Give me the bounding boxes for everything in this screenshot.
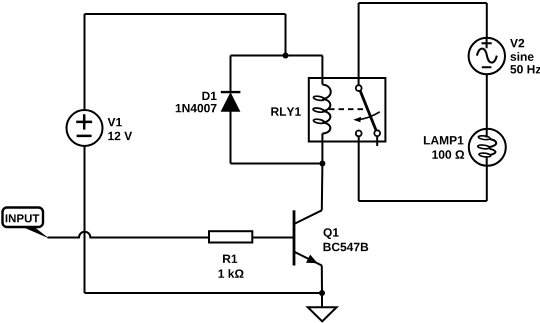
voltage source V1 (67, 110, 103, 146)
node collector/diode junction dot (319, 161, 325, 167)
wire diode bottom to collector node (231, 163, 323, 165)
label RLY1 (271, 107, 301, 115)
wire lamp bottom lead (486, 166, 488, 201)
ground (308, 293, 337, 321)
wire V2 top lead (486, 3, 488, 38)
wire input to resistor with hop over V1 lead (48, 232, 210, 238)
lamp LAMP1 (469, 129, 506, 166)
wire V2 to lamp (486, 74, 488, 129)
wire horizontal D1/relay top (231, 55, 323, 57)
wire V2 bottom rail (359, 200, 487, 202)
voltage source V2 (469, 38, 505, 74)
wire V2 top rail (359, 2, 487, 4)
wire vertical drop from top rail to node (285, 14, 287, 56)
node junction dot top (283, 53, 289, 59)
coil lead above (321, 56, 323, 85)
transistor Q1 (294, 210, 322, 265)
input flag INPUT (3, 208, 50, 239)
label V1 12 V (108, 118, 133, 140)
wire bottom rail (85, 292, 323, 294)
wire top rail from V1 to junction (85, 13, 286, 15)
relay RLY1 (309, 56, 386, 147)
dashed actuation line (329, 108, 363, 110)
wire V1 top lead (84, 14, 86, 110)
diode D1 (221, 56, 241, 164)
label R1 1 kOhm (219, 255, 244, 278)
wire switch bottom lead (358, 136, 360, 201)
wire base (252, 237, 293, 239)
arrow arc (358, 112, 380, 120)
coil arcs (322, 85, 330, 134)
label D1 1N4007 (176, 92, 217, 113)
NO stub (376, 136, 378, 146)
wire switch top lead (358, 3, 360, 85)
switch blade (360, 91, 376, 131)
contact bottom left (356, 131, 362, 137)
resistor R1 (209, 231, 252, 242)
label LAMP1 100 Ohm (424, 136, 464, 159)
wire emitter lead down (321, 266, 323, 294)
node emitter/ground junction dot (319, 290, 325, 296)
label Q1 BC547B (324, 228, 369, 251)
wire collector lead up to relay coil (321, 134, 324, 211)
wire V1 bottom lead (84, 146, 86, 293)
contact bottom right (374, 130, 380, 136)
label V2 sine 50 Hz (510, 39, 540, 74)
coil loop ellipses (313, 95, 324, 101)
contact top (356, 85, 362, 91)
